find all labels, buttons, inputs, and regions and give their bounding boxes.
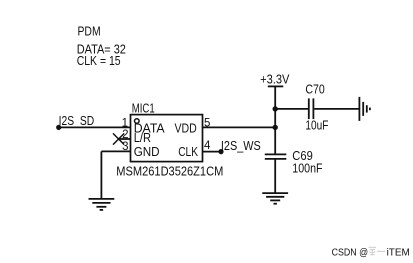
ground symbol (under C69): [262, 193, 288, 204]
svg-text:I2S_SD: I2S_SD: [59, 114, 95, 128]
wire C69 to ground: [274, 159, 276, 193]
svg-text:10uF: 10uF: [305, 119, 328, 133]
svg-text:VDD: VDD: [175, 121, 197, 135]
power +3.3V bar: [268, 85, 284, 87]
wire rail to C70: [275, 108, 308, 110]
node I2S_SD terminal dot: [56, 125, 61, 130]
no-connect X on pin 2: [113, 133, 124, 144]
svg-text:1: 1: [122, 118, 128, 130]
pin 1 indicator circle: [135, 119, 140, 124]
capacitor C69 plate top: [265, 153, 287, 155]
op-amp/mic IC U1 body MIC1: [131, 115, 203, 162]
svg-text:C70: C70: [305, 82, 324, 96]
capacitor C69 plate bottom: [265, 158, 287, 160]
junction dot rail/VDD: [273, 125, 278, 130]
svg-text:L/R: L/R: [134, 131, 151, 145]
junction dot rail/C70: [273, 106, 278, 111]
svg-text:4: 4: [204, 140, 211, 152]
watermark glyph yi dash: [377, 250, 385, 252]
wire +3.3V rail vertical: [274, 86, 276, 154]
wire pin 4 CLK stub: [203, 151, 222, 153]
svg-text:+3.3V: +3.3V: [260, 72, 290, 86]
node I2S_WS terminal dot: [218, 149, 223, 154]
wire pin 5 VDD to rail: [203, 126, 276, 128]
wire C70 to earth ground: [314, 108, 359, 110]
wire pin 2 stub: [119, 138, 131, 140]
wire pin 3 GND horizontal: [101, 150, 130, 152]
svg-text:I2S_WS: I2S_WS: [221, 139, 261, 153]
svg-text:CSDN @: CSDN @: [332, 246, 369, 258]
capacitor C70 plate left: [308, 98, 310, 119]
wire pin 3 GND vertical: [100, 151, 102, 199]
watermark glyph ling: [369, 247, 376, 255]
svg-text:GND: GND: [134, 145, 160, 159]
earth ground symbol (right of C70): [359, 97, 370, 121]
ground symbol (left, under GND pin): [89, 199, 115, 210]
svg-text:CLK: CLK: [178, 145, 198, 159]
svg-text:MSM261D3526Z1CM: MSM261D3526Z1CM: [116, 164, 223, 178]
wire I2S_SD to pin 1: [59, 126, 131, 128]
svg-text:CLK = 15: CLK = 15: [77, 54, 121, 68]
svg-text:iTEM: iTEM: [387, 246, 410, 258]
svg-text:100nF: 100nF: [292, 162, 323, 176]
capacitor C70 plate right: [312, 98, 314, 119]
svg-text:PDM: PDM: [78, 25, 101, 39]
svg-text:MIC1: MIC1: [132, 101, 155, 115]
